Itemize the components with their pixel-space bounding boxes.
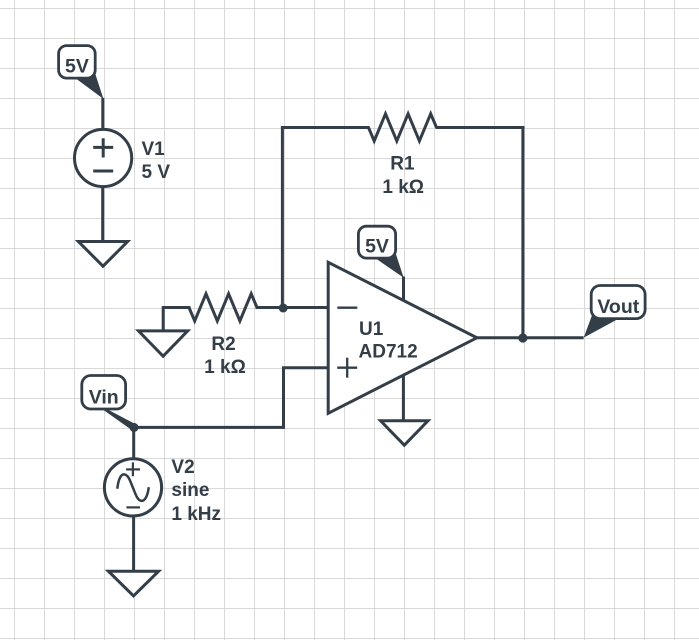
ground (R2 input) [139,331,188,356]
svg-text:Vout: Vout [597,296,639,318]
net tag Vin [82,376,137,431]
wire Vin to op-amp + input [133,368,330,428]
svg-text:1 kΩ: 1 kΩ [204,357,246,378]
wire op-amp to ground [402,375,405,422]
svg-text:1 kHz: 1 kHz [171,504,221,525]
ground (op-amp U1) [381,421,428,445]
svg-text:V1: V1 [142,139,166,160]
voltage source V1 [75,129,132,186]
wire op-amp output [476,336,584,339]
svg-text:V2: V2 [171,457,194,478]
power tag 5V (V1) [59,46,104,99]
wire V2 to ground [132,514,135,572]
wire feedback top right [436,126,525,129]
svg-text:5 V: 5 V [142,162,171,183]
svg-text:AD712: AD712 [359,342,418,363]
wire Vin to V2 [132,426,135,461]
svg-text:Vin: Vin [89,386,119,408]
svg-text:R2: R2 [211,334,235,355]
resistor R1 [369,114,437,141]
svg-text:5V: 5V [65,56,89,78]
resistor R2 [189,294,257,321]
svg-text:5V: 5V [365,236,389,258]
junction node inverting input [279,304,288,313]
ground (V1) [78,242,127,267]
junction node Vin [130,423,139,432]
junction node output [518,333,527,342]
wire V1 to ground [101,185,104,243]
wire R2 to op-amp inverting input [256,306,330,309]
power tag 5V (U1) [358,226,403,277]
wire 5V tag to op-amp [402,277,405,302]
wire feedback right vertical [521,126,524,338]
wire V1 tag to source [101,98,104,131]
svg-text:sine: sine [171,480,209,501]
op-amp U1 [328,262,477,413]
voltage source V2 (sine) [104,459,161,516]
net tag Vout [584,286,645,338]
wire feedback left vertical [281,126,284,309]
wire R2 ground stub [163,308,190,332]
svg-text:U1: U1 [359,319,384,340]
svg-text:1 kΩ: 1 kΩ [382,177,424,198]
wire feedback top left [281,126,370,129]
svg-text:R1: R1 [390,154,415,175]
ground (V2) [108,571,158,596]
